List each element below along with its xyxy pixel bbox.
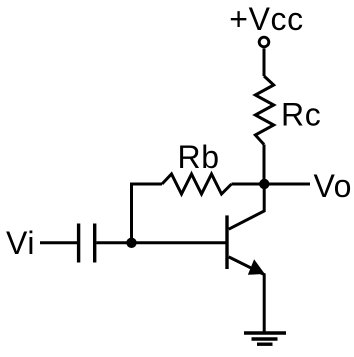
label Vi <box>6 225 35 261</box>
wire Rb to collector node <box>232 183 265 186</box>
wire Rc to collector node <box>263 145 266 185</box>
transistor Q1 emitter arrow <box>249 261 263 274</box>
svg-text:+Vcc: +Vcc <box>229 1 303 37</box>
Vcc terminal <box>259 37 269 47</box>
label Vo <box>314 168 353 204</box>
wire base node to Q1 base <box>132 241 226 244</box>
node base junction <box>126 238 136 248</box>
svg-text:Rb: Rb <box>178 139 220 175</box>
wire Vi to capacitor <box>40 241 77 244</box>
ground <box>244 333 286 344</box>
transistor Q1 collector lead <box>229 184 265 229</box>
node collector junction <box>259 179 269 189</box>
svg-text:Vo: Vo <box>314 168 353 204</box>
transistor Q1 emitter lead <box>229 257 265 333</box>
wire base riser to Rb <box>132 184 163 243</box>
capacitor C1 <box>79 224 95 263</box>
wire Vcc terminal to Rc <box>263 48 266 76</box>
resistor Rc <box>255 76 273 145</box>
svg-text:Rc: Rc <box>281 97 321 133</box>
wire collector node to Vo <box>264 183 310 186</box>
transistor Q1 base bar <box>225 215 228 269</box>
resistor Rb <box>162 174 232 194</box>
net +Vcc label <box>229 1 303 37</box>
svg-text:Vi: Vi <box>6 225 35 261</box>
label Rc <box>281 97 321 133</box>
label Rb <box>178 139 220 175</box>
wire capacitor to base node <box>96 241 131 244</box>
